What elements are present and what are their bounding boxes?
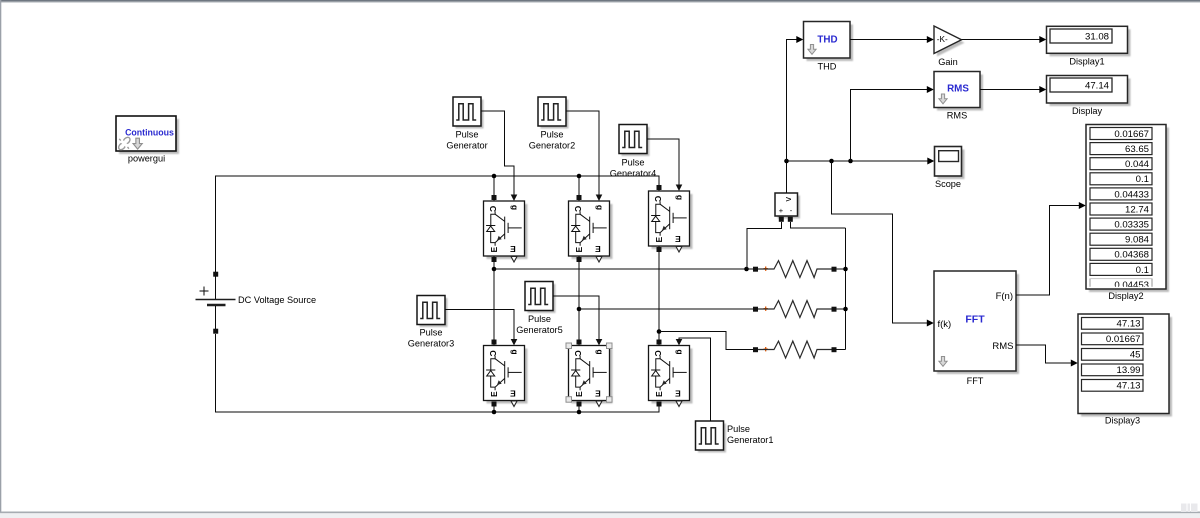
display Display1 — [1047, 26, 1131, 56]
DC voltage source V1 — [196, 272, 236, 334]
svg-text:Pulse: Pulse — [727, 424, 750, 434]
scope block — [935, 147, 965, 180]
svg-text:RMS: RMS — [947, 83, 969, 94]
svg-text:Display3: Display3 — [1105, 415, 1140, 425]
resistor R3 — [753, 341, 846, 358]
wire: Gain to Display1 — [962, 39, 1040, 41]
svg-text:0.01667: 0.01667 — [1114, 129, 1149, 140]
display Display3 — [1078, 314, 1172, 417]
svg-text:12.74: 12.74 — [1125, 204, 1150, 215]
svg-text:+: + — [779, 206, 784, 215]
IGBT Q3 — [649, 185, 693, 253]
window frame left — [0, 0, 1, 513]
window frame bottom — [0, 512, 1200, 514]
svg-text:31.08: 31.08 — [1085, 31, 1109, 42]
node: bus to Q2 collector — [578, 176, 580, 201]
IGBT Q1 — [484, 195, 528, 263]
svg-text:Scope: Scope — [935, 179, 961, 189]
window frame top — [0, 0, 1200, 2]
IGBT Q2 — [569, 195, 613, 263]
svg-text:9.084: 9.084 — [1125, 235, 1150, 246]
svg-text:Gain: Gain — [938, 57, 957, 67]
svg-text:FFT: FFT — [967, 376, 984, 386]
wire: phase A to R1 — [494, 268, 753, 270]
node: bus at voltmeter — [784, 159, 789, 164]
wire: neutral bus joining resistor right ends — [845, 228, 847, 350]
svg-text:0.03335: 0.03335 — [1114, 220, 1149, 231]
svg-text:63.65: 63.65 — [1125, 144, 1149, 155]
svg-text:47.13: 47.13 — [1116, 319, 1140, 330]
selection handles on Q5 — [566, 343, 612, 402]
svg-text:RMS: RMS — [947, 110, 967, 120]
svg-text:Pulse: Pulse — [622, 158, 645, 168]
node: branch to RMS — [848, 159, 853, 164]
node: phase C junction — [657, 329, 662, 334]
svg-text:Pulse: Pulse — [456, 130, 479, 140]
node: R1 to neutral bus — [843, 267, 848, 272]
svg-text:v: v — [783, 197, 793, 202]
wire: phase B midpoint (Q2 E to Q5 C) — [578, 256, 580, 346]
wire: PG4 to Q3 gate — [647, 139, 679, 185]
FFT block — [934, 271, 1019, 374]
wire: top DC bus — [216, 176, 659, 274]
watermark — [1181, 504, 1198, 513]
resistor R2 — [753, 301, 846, 318]
pulse generator PG5 — [525, 282, 556, 314]
voltage measurement U1 — [775, 193, 800, 222]
wire: FFT F(n) to Display2 — [1016, 206, 1079, 296]
IGBT Q6 — [649, 339, 693, 407]
THD block — [804, 22, 854, 62]
svg-text:Display: Display — [1072, 106, 1103, 116]
svg-text:0.044: 0.044 — [1125, 159, 1150, 170]
wire: phase B to R2 — [579, 308, 753, 310]
svg-text:47.14: 47.14 — [1085, 80, 1110, 91]
svg-text:f(k): f(k) — [938, 319, 952, 330]
svg-text:47.13: 47.13 — [1116, 381, 1140, 392]
node: voltmeter tap on phase A — [744, 267, 749, 272]
RMS block — [934, 72, 983, 111]
pulse generator PG4 — [619, 125, 650, 157]
svg-text:Generator4: Generator4 — [610, 169, 656, 179]
wire: voltmeter - to neutral bus — [790, 222, 845, 228]
resistor R1 — [753, 261, 846, 278]
wire: voltmeter + to phase A node — [747, 222, 781, 269]
wire: PG2 to Q2 gate — [566, 111, 599, 195]
node: phase A junction — [492, 267, 497, 272]
powergui U0 — [116, 116, 179, 154]
node: bus to Q1 collector — [493, 176, 495, 201]
wire: PG5 to Q5 gate — [553, 296, 599, 339]
svg-text:Continuous: Continuous — [125, 128, 174, 138]
svg-text:0.04433: 0.04433 — [1114, 189, 1149, 200]
svg-text:Pulse: Pulse — [528, 314, 551, 324]
node: Q4 emitter to bus — [493, 404, 495, 412]
svg-text:THD: THD — [818, 61, 837, 71]
IGBT Q4 — [484, 339, 528, 407]
svg-text:0.04368: 0.04368 — [1114, 250, 1149, 261]
svg-text:Generator: Generator — [446, 141, 487, 151]
wire: FFT RMS to Display3 — [1016, 345, 1071, 363]
svg-text:Pulse: Pulse — [541, 130, 564, 140]
display Display — [1047, 76, 1131, 107]
svg-text:Generator2: Generator2 — [529, 141, 575, 151]
svg-text:DC Voltage Source: DC Voltage Source — [238, 295, 316, 305]
svg-text:-K-: -K- — [937, 35, 948, 44]
gain K1 — [934, 26, 965, 57]
svg-text:Generator1: Generator1 — [727, 435, 773, 445]
svg-text:THD: THD — [817, 34, 837, 45]
node: phase B junction — [577, 307, 582, 312]
pulse generator PG6 (Pulse Generator1) — [696, 421, 727, 453]
svg-text:powergui: powergui — [128, 154, 165, 164]
svg-text:F(n): F(n) — [996, 291, 1013, 302]
wire: PG1 to Q1 gate — [481, 111, 514, 195]
svg-text:FFT: FFT — [965, 314, 985, 326]
wire: phase A midpoint (Q1 E to Q4 C) — [493, 256, 495, 346]
svg-text:Pulse: Pulse — [420, 328, 443, 338]
svg-text:Generator3: Generator3 — [408, 339, 454, 349]
wire: voltmeter output up to measurement bus — [786, 161, 788, 193]
svg-text:0.1: 0.1 — [1136, 265, 1149, 276]
wire: bottom return bus — [216, 334, 659, 412]
svg-text:RMS: RMS — [992, 341, 1013, 352]
svg-text:Display1: Display1 — [1069, 57, 1104, 67]
wire: PG3 to Q4 gate — [445, 310, 514, 340]
wire: phase C midpoint (Q3 E to Q6 C) — [658, 246, 660, 346]
svg-text:Display2: Display2 — [1108, 291, 1143, 301]
display Display2 — [1086, 125, 1169, 293]
svg-text:13.99: 13.99 — [1116, 365, 1140, 376]
svg-text:Generator5: Generator5 — [516, 325, 562, 335]
wire: phase C to R3 — [659, 332, 753, 350]
IGBT Q5 — [569, 339, 613, 407]
wire: measurement bus to Scope — [787, 160, 928, 162]
wire: THD to Gain — [850, 39, 927, 41]
wire: RMS to Display — [980, 89, 1040, 91]
node: branch to FFT — [829, 159, 834, 164]
wire: PG6 to Q6 gate — [679, 338, 711, 421]
wire: bus up to THD input — [787, 40, 797, 162]
svg-text:0.01667: 0.01667 — [1106, 334, 1141, 345]
svg-text:0.1: 0.1 — [1136, 174, 1149, 185]
wire: branch up to RMS input — [851, 90, 928, 162]
svg-text:45: 45 — [1130, 350, 1141, 361]
node: R2 to neutral bus — [843, 307, 848, 312]
pulse generator PG3 — [417, 296, 448, 328]
pulse generator PG2 — [538, 97, 569, 129]
wire: branch down to FFT f(k) input — [832, 161, 928, 323]
node: Q5 emitter to bus — [578, 404, 580, 412]
pulse generator PG1 — [453, 97, 484, 129]
